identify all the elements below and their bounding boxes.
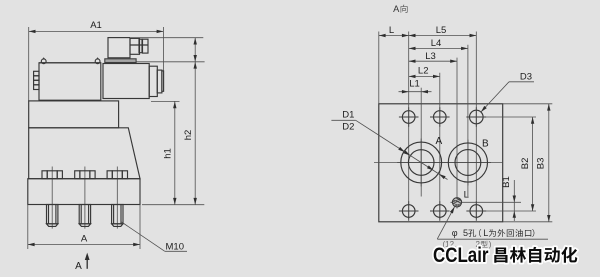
port B inner circle <box>455 150 481 176</box>
port A outer circle <box>401 142 442 183</box>
bottom holes row crosshairs <box>399 210 419 212</box>
top mounting hole 3 (D3) <box>470 110 484 124</box>
svg-text:h1: h1 <box>163 148 174 159</box>
svg-text:D2: D2 <box>342 121 354 132</box>
bottom mounting hole 2 <box>434 205 447 218</box>
crosshair of top hole 1 <box>399 107 419 127</box>
stud centerline 2 <box>84 167 86 229</box>
dimension L <box>379 25 409 37</box>
svg-text:A: A <box>75 261 82 272</box>
svg-text:D3: D3 <box>520 72 532 83</box>
dimension A1 with extension lines and arrows <box>29 20 164 101</box>
solenoid nose ring 3 <box>162 71 164 91</box>
svg-text:L: L <box>464 189 469 200</box>
centerline column port B <box>467 45 469 197</box>
svg-text:5: 5 <box>463 228 468 238</box>
svg-text:L5: L5 <box>436 25 447 36</box>
svg-text:B1: B1 <box>501 176 512 188</box>
svg-text:φ: φ <box>452 228 458 238</box>
svg-text:A: A <box>81 233 88 244</box>
plate left edge extension <box>378 32 380 104</box>
valve body lower block with slanted edge <box>29 128 140 179</box>
svg-text:h2: h2 <box>183 130 194 141</box>
top holes row crosshairs <box>399 116 419 118</box>
bottom mounting hole 3 <box>470 205 483 218</box>
dimension h2 vertical with connector height dimension <box>131 38 205 205</box>
hex nut 3 <box>107 171 127 179</box>
svg-text:B3: B3 <box>535 158 546 170</box>
plate top edge extension <box>503 103 553 105</box>
plate bottom edge extension <box>503 221 553 223</box>
screw head right <box>95 59 100 64</box>
dimension L2 <box>409 65 440 78</box>
stud centerline 3 <box>116 167 118 229</box>
drain hole L with crosshatch <box>449 196 466 208</box>
hex nut 2 <box>75 171 95 179</box>
centerline column holes 2 <box>439 73 441 219</box>
cable axis line <box>130 44 148 46</box>
top mounting hole 1 <box>402 111 415 124</box>
svg-text:M10: M10 <box>166 242 184 253</box>
svg-text:L4: L4 <box>431 38 442 49</box>
M10 thread label with leader line <box>121 222 187 253</box>
labels D1 and D2 with leader through port A <box>331 109 447 179</box>
crosshair of port B <box>445 140 491 186</box>
centerline column drain L <box>456 58 458 209</box>
label D3 with leader <box>480 72 534 114</box>
dimension B1 (arrows outside) <box>501 176 516 221</box>
threaded stud 2 <box>79 205 90 227</box>
note phi-5 hole leader <box>437 206 548 239</box>
valve body upper block <box>29 101 119 128</box>
centerline column holes 3 <box>475 32 477 220</box>
centerline column port A <box>420 88 422 197</box>
dimension L1 (arrows outside) <box>399 79 432 94</box>
dimension h1 vertical <box>151 101 180 204</box>
hex nut 1 <box>42 171 62 179</box>
solenoid nose ring 1 <box>149 66 157 96</box>
dimension A with extension lines and arrows <box>28 205 140 250</box>
dimension L5 <box>409 25 477 37</box>
port A inner circle <box>408 150 434 176</box>
svg-text:L2: L2 <box>418 65 429 76</box>
svg-text:B: B <box>482 139 489 150</box>
ports horizontal centerline <box>374 162 503 164</box>
crosshair of bottom hole 3 <box>467 201 487 221</box>
svg-text:L3: L3 <box>425 51 436 62</box>
crosshair of bottom hole 2 <box>430 201 450 221</box>
stud centerline 1 <box>51 167 53 229</box>
svg-text:A: A <box>435 136 442 147</box>
svg-text:CCLair: CCLair <box>433 244 489 267</box>
svg-text:L1: L1 <box>409 79 420 90</box>
note phi-5 hole text <box>452 228 535 238</box>
mounting plate outline <box>379 104 503 222</box>
screw head left <box>41 59 46 64</box>
terminal tabs on coil left side <box>34 71 39 89</box>
cable gland ring 1 <box>139 39 142 53</box>
bottom mounting hole 1 <box>402 205 415 218</box>
solenoid tube body <box>103 64 149 99</box>
dimension B2 <box>520 117 535 211</box>
crosshair of top hole 3 <box>467 107 487 127</box>
solenoid coil body <box>39 63 101 100</box>
port B outer circle <box>448 143 487 182</box>
crosshair of bottom hole 1 <box>399 201 419 221</box>
svg-text:A1: A1 <box>90 20 102 31</box>
dimension B3 <box>535 104 550 222</box>
svg-text:D1: D1 <box>342 109 354 120</box>
threaded stud 1 <box>47 205 58 227</box>
dimension L4 <box>409 38 468 50</box>
connector block (DIN plug) <box>108 38 130 58</box>
drain hole row extension <box>451 201 522 203</box>
connector mid section <box>130 38 140 54</box>
view direction arrow A <box>75 253 89 272</box>
mounting base plate <box>28 179 140 205</box>
threaded stud 3 <box>112 205 123 227</box>
svg-text:L: L <box>483 228 488 238</box>
dimension L3 <box>409 51 457 63</box>
svg-text:L: L <box>389 25 394 36</box>
crosshair of port A <box>397 139 445 187</box>
svg-text:A: A <box>393 4 400 14</box>
top mounting hole 2 <box>434 111 447 124</box>
crosshair of top hole 2 <box>430 107 450 127</box>
svg-text:): ) <box>489 240 492 249</box>
note type text (partially hidden) <box>443 240 492 249</box>
cable gland ring 2 <box>143 39 149 53</box>
solenoid nose ring 2 <box>157 70 162 93</box>
logo CCLair Changlin automation <box>433 244 577 267</box>
centerline column holes 1 <box>408 32 410 220</box>
svg-text:B2: B2 <box>520 158 531 170</box>
coil top edge over screws <box>39 62 101 64</box>
gasket plate under connector <box>105 59 136 63</box>
